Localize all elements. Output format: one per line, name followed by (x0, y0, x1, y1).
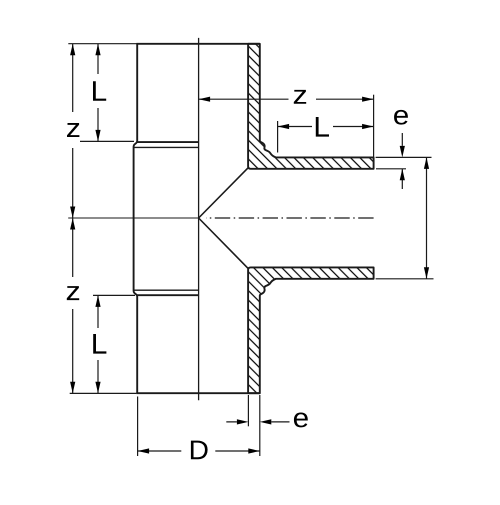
extension line branch bottom outer surface (376, 278, 434, 280)
extension line run inner wall below (247, 395, 249, 426)
dimension D: arrows (138, 448, 150, 453)
extension line at branch end (373, 95, 375, 158)
dimension L top-right: label (316, 117, 329, 137)
socket stop edge bottom (thin) (134, 289, 199, 291)
dimension z top-right: arrows (199, 97, 211, 102)
dimension L top-right: line (278, 126, 374, 128)
dimension z top-left: arrows (70, 44, 75, 56)
dimension e top-right: leader and arrows (401, 133, 403, 189)
dimension z top-left: line (72, 44, 74, 218)
socket stop edge top (thick) (137, 141, 199, 143)
branch horizontal centerline (solid left part) (68, 217, 198, 219)
extension line branch inner surface (376, 168, 406, 170)
extension line run outer wall below (259, 395, 261, 456)
dimension D: lines (138, 450, 260, 452)
extension line top left (68, 43, 137, 45)
dimension L bottom-left: line (97, 295, 99, 393)
socket stop edge bottom (thick) (137, 294, 199, 296)
branch bore cone lower edge (199, 218, 249, 268)
run pipe left profile with socket steps (134, 44, 138, 393)
dimension e top-right: label (394, 110, 408, 125)
tee body: sectioned right wall + branch bottom wall (hatched) (248, 267, 374, 393)
dimension z top-right: line (199, 98, 374, 100)
run pipe bottom edge (136, 392, 259, 394)
dimension D: label (191, 441, 208, 460)
socket stop edge top (thin) (134, 146, 198, 148)
dimension e bottom: arrows (237, 419, 249, 424)
dimension z top-right: label (294, 90, 306, 104)
dimension z bottom-left: line (72, 218, 74, 393)
tee body: sectioned right wall + branch top wall (hatched) (248, 44, 374, 169)
dimension L top-left: line (97, 44, 99, 142)
run pipe vertical centerline (198, 38, 200, 400)
branch horizontal centerline (dash-dot) (206, 217, 374, 219)
dimension branch OD right: arrows (424, 157, 429, 169)
dimension L top-left: label (93, 81, 106, 101)
dimension z bottom-left: arrows (70, 218, 75, 230)
dimension z top-left: label (67, 123, 79, 137)
extension line bottom left (70, 392, 137, 394)
dimension L top-left: arrows (95, 44, 100, 56)
branch bore cone upper edge (199, 168, 249, 218)
dimension L bottom-left: arrows (95, 295, 100, 307)
extension line left for D (137, 397, 139, 457)
run pipe top edge (136, 43, 259, 45)
dimension z bottom-left: label (67, 286, 79, 300)
extension line at top socket stop (80, 140, 134, 142)
extension line branch outer surface (376, 156, 432, 158)
dimension e bottom: label (294, 413, 308, 428)
extension line for L at socket stop bump (277, 121, 279, 153)
dimension L top-right: arrows (278, 124, 290, 129)
extension line at bottom socket stop (93, 294, 135, 296)
dimension L bottom-left: label (93, 334, 106, 354)
dimension e bottom: lines (226, 421, 289, 423)
dimension branch OD right: line (426, 157, 428, 278)
